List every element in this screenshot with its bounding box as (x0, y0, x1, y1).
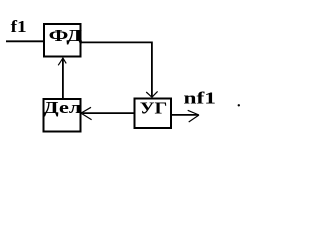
block U2 divider Дел (43, 98, 82, 132)
svg-text:УГ: УГ (140, 99, 168, 118)
wire: УГ output (172, 114, 199, 116)
arrowhead into УГ (pointing down) (146, 91, 157, 97)
arrowhead into ФД (pointing up) (58, 58, 66, 65)
wire: Дел to ФД feedback (vertical) (62, 59, 64, 99)
block U3 oscillator УГ (135, 99, 172, 129)
svg-text:f1: f1 (11, 17, 27, 36)
wire: УГ to Дел (83, 112, 135, 114)
stray dot speck (238, 104, 240, 106)
svg-text:ФД: ФД (49, 26, 83, 45)
arrowhead into Дел (pointing left) (81, 107, 92, 119)
svg-text:nf1: nf1 (184, 89, 217, 108)
arrowhead output (pointing right) (188, 110, 199, 122)
wire: input f1 line (6, 40, 45, 42)
block U1 phase detector ФД (44, 24, 83, 57)
wire: ФД output to corner and down to УГ (81, 42, 152, 96)
svg-text:Дел: Дел (43, 98, 82, 117)
